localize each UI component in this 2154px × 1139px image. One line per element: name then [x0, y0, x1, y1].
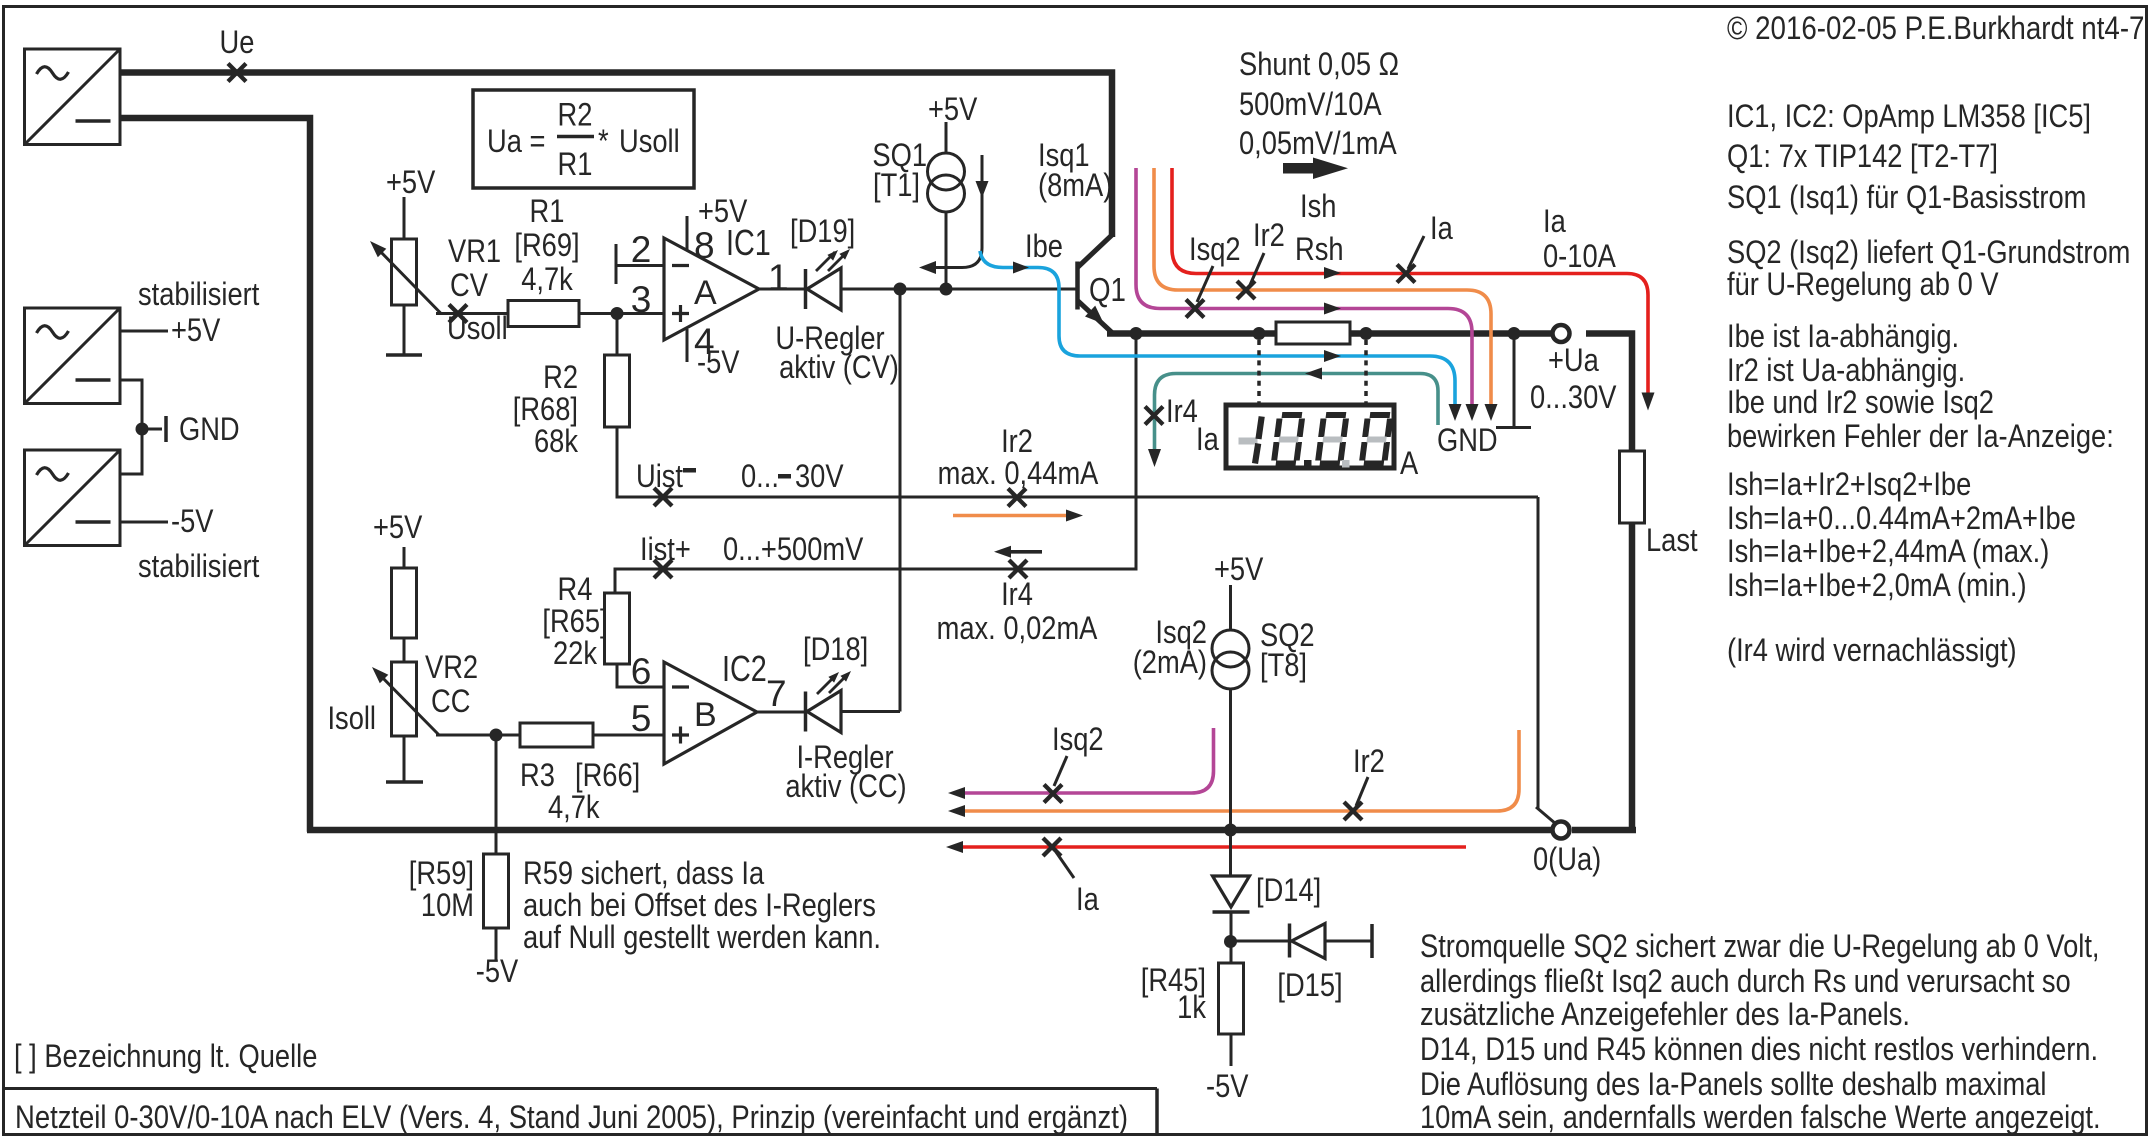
svg-text:0...: 0...	[741, 459, 779, 495]
svg-text:[D14]: [D14]	[1256, 873, 1321, 909]
svg-text:+5V: +5V	[1214, 552, 1263, 588]
svg-text:5: 5	[631, 698, 652, 739]
svg-text:+5V: +5V	[373, 510, 422, 546]
svg-text:Rsh: Rsh	[1295, 232, 1344, 268]
svg-text:SQ1 (Isq1) für Q1-Basisstrom: SQ1 (Isq1) für Q1-Basisstrom	[1727, 180, 2086, 216]
svg-text:IC2: IC2	[722, 648, 767, 689]
svg-text:Ibe ist Ia-abhängig.: Ibe ist Ia-abhängig.	[1727, 319, 1959, 355]
svg-text:*: *	[598, 124, 609, 160]
svg-text:[R69]: [R69]	[514, 228, 579, 264]
svg-text:Q1: Q1	[1089, 272, 1126, 309]
svg-text:3: 3	[631, 279, 652, 320]
svg-text:Netzteil 0-30V/0-10A nach ELV: Netzteil 0-30V/0-10A nach ELV (Vers. 4, …	[15, 1100, 1128, 1136]
svg-text:R4: R4	[558, 572, 593, 608]
svg-text:0,05mV/1mA: 0,05mV/1mA	[1239, 126, 1397, 162]
svg-text:A: A	[694, 274, 717, 312]
svg-text:Ibe: Ibe	[1025, 229, 1063, 265]
svg-text:© 2016-02-05 P.E.Burkhardt nt4: © 2016-02-05 P.E.Burkhardt nt4-7	[1727, 11, 2144, 47]
svg-text:GND: GND	[179, 412, 240, 448]
svg-text:R59 sichert, dass Ia: R59 sichert, dass Ia	[523, 856, 764, 892]
svg-text:zusätzliche Anzeigefehler des: zusätzliche Anzeigefehler des Ia-Panels.	[1420, 997, 1910, 1033]
svg-text:0...30V: 0...30V	[1530, 380, 1616, 416]
svg-text:[R66]: [R66]	[575, 758, 640, 794]
svg-text:Ish=Ia+Ibe+2,44mA (max.): Ish=Ia+Ibe+2,44mA (max.)	[1727, 534, 2049, 570]
svg-text:Shunt 0,05 Ω: Shunt 0,05 Ω	[1239, 47, 1399, 83]
svg-text:Ue: Ue	[220, 25, 255, 61]
svg-text:6: 6	[631, 651, 652, 692]
svg-text:4,7k: 4,7k	[521, 262, 573, 298]
svg-text:Isq2: Isq2	[1189, 232, 1241, 268]
svg-text:VR2: VR2	[425, 650, 478, 686]
svg-text:Ir2: Ir2	[1253, 218, 1285, 254]
svg-text:Ish=Ia+Ibe+2,0mA (min.): Ish=Ia+Ibe+2,0mA (min.)	[1727, 568, 2027, 604]
svg-text:(8mA): (8mA)	[1038, 168, 1112, 204]
svg-text:R3: R3	[520, 758, 555, 794]
svg-text:[D18]: [D18]	[803, 632, 868, 668]
svg-text:Iist+: Iist+	[640, 532, 691, 568]
svg-text:+5V: +5V	[386, 165, 435, 201]
svg-text:+5V: +5V	[928, 92, 977, 128]
svg-text:auch bei Offset des I-Reglers: auch bei Offset des I-Reglers	[523, 888, 876, 924]
svg-text:0-10A: 0-10A	[1543, 239, 1616, 275]
svg-text:aktiv (CC): aktiv (CC)	[785, 769, 906, 805]
svg-text:A: A	[1400, 446, 1418, 482]
svg-text:Isq2: Isq2	[1052, 722, 1104, 758]
svg-text:Ia: Ia	[1196, 422, 1219, 458]
svg-text:IC1: IC1	[726, 222, 771, 263]
svg-text:(Ir4 wird vernachlässigt): (Ir4 wird vernachlässigt)	[1727, 633, 2017, 669]
svg-text:[D19]: [D19]	[790, 214, 855, 250]
svg-text:+Ua: +Ua	[1548, 343, 1599, 379]
svg-text:max. 0,02mA: max. 0,02mA	[937, 611, 1098, 647]
svg-text:Ibe und Ir2 sowie Isq2: Ibe und Ir2 sowie Isq2	[1727, 385, 1994, 421]
svg-text:CV: CV	[450, 268, 488, 304]
svg-text:Uist: Uist	[636, 459, 684, 495]
svg-text:[R68]: [R68]	[513, 392, 578, 428]
svg-text:Ia: Ia	[1076, 882, 1099, 918]
svg-text:CC: CC	[431, 684, 470, 720]
svg-text:Q1: 7x TIP142 [T2-T7]: Q1: 7x TIP142 [T2-T7]	[1727, 139, 1998, 175]
svg-text:1k: 1k	[1177, 990, 1207, 1026]
svg-text:(2mA): (2mA)	[1133, 645, 1207, 681]
svg-text:D14, D15 und R45 können dies n: D14, D15 und R45 können dies nicht restl…	[1420, 1032, 2098, 1068]
svg-text:bewirken Fehler der Ia-Anzeige: bewirken Fehler der Ia-Anzeige:	[1727, 419, 2114, 455]
svg-text:-5V: -5V	[1206, 1069, 1248, 1105]
svg-text:stabilisiert: stabilisiert	[138, 277, 260, 313]
svg-text:8: 8	[694, 225, 715, 266]
svg-text:für U-Regelung ab 0 V: für U-Regelung ab 0 V	[1727, 267, 1999, 303]
svg-text:Ish=Ia+0...0.44mA+2mA+Ibe: Ish=Ia+0...0.44mA+2mA+Ibe	[1727, 501, 2076, 537]
svg-text:0...+500mV: 0...+500mV	[723, 532, 863, 568]
svg-text:R2: R2	[558, 97, 593, 133]
svg-text:7: 7	[766, 673, 787, 714]
svg-text:Stromquelle SQ2 sichert zwar d: Stromquelle SQ2 sichert zwar die U-Regel…	[1420, 929, 2100, 965]
svg-text:4,7k: 4,7k	[548, 790, 600, 826]
svg-text:Ish=Ia+Ir2+Isq2+Ibe: Ish=Ia+Ir2+Isq2+Ibe	[1727, 467, 1971, 503]
svg-text:Ia: Ia	[1543, 204, 1566, 240]
svg-text:68k: 68k	[534, 424, 579, 460]
svg-text:stabilisiert: stabilisiert	[138, 549, 260, 585]
svg-text:[T1]: [T1]	[873, 168, 920, 204]
svg-text:30V: 30V	[795, 459, 844, 495]
svg-text:VR1: VR1	[448, 234, 501, 270]
svg-text:allerdings fließt Isq2 auch du: allerdings fließt Isq2 auch durch Rs und…	[1420, 964, 2071, 1000]
svg-text:IC1, IC2: OpAmp LM358 [IC5]: IC1, IC2: OpAmp LM358 [IC5]	[1727, 99, 2091, 135]
svg-text:SQ2 (Isq2) liefert Q1-Grundstr: SQ2 (Isq2) liefert Q1-Grundstrom	[1727, 235, 2130, 271]
svg-text:-5V: -5V	[697, 345, 739, 381]
svg-text:[R59]: [R59]	[409, 856, 474, 892]
svg-text:Ir2: Ir2	[1001, 424, 1033, 460]
svg-text:Usoll: Usoll	[619, 124, 680, 160]
svg-text:R1: R1	[530, 194, 565, 230]
svg-text:+5V: +5V	[171, 313, 220, 349]
svg-text:Die Auflösung des Ia-Panels so: Die Auflösung des Ia-Panels sollte desha…	[1420, 1067, 2046, 1103]
svg-text:10M: 10M	[421, 888, 474, 924]
svg-text:-5V: -5V	[476, 954, 518, 990]
svg-text:-5V: -5V	[171, 504, 213, 540]
svg-text:Ir4: Ir4	[1001, 577, 1033, 613]
svg-text:aktiv (CV): aktiv (CV)	[779, 350, 899, 386]
svg-text:R1: R1	[558, 147, 593, 183]
svg-text:0(Ua): 0(Ua)	[1533, 842, 1601, 878]
svg-text:Ir4: Ir4	[1166, 394, 1198, 430]
svg-text:Ir2: Ir2	[1353, 744, 1385, 780]
svg-text:Usoll: Usoll	[447, 311, 508, 347]
svg-text:22k: 22k	[553, 636, 598, 672]
svg-text:R2: R2	[543, 360, 578, 396]
svg-text:[R65]: [R65]	[542, 604, 607, 640]
svg-text:Last: Last	[1646, 523, 1698, 559]
svg-text:[T8]: [T8]	[1260, 648, 1307, 684]
svg-text:Ir2 ist Ua-abhängig.: Ir2 ist Ua-abhängig.	[1727, 353, 1965, 389]
svg-text:Ia: Ia	[1430, 211, 1453, 247]
svg-text:Isoll: Isoll	[327, 701, 376, 737]
svg-text:2: 2	[631, 229, 652, 270]
svg-text:Ua =: Ua =	[487, 124, 545, 160]
svg-text:B: B	[694, 696, 717, 734]
svg-text:[D15]: [D15]	[1277, 968, 1342, 1004]
svg-text:Ish: Ish	[1300, 189, 1336, 225]
svg-text:10mA sein, andernfalls werden: 10mA sein, andernfalls werden falsche We…	[1420, 1100, 2101, 1136]
svg-text:auf Null gestellt werden kann.: auf Null gestellt werden kann.	[523, 920, 881, 956]
svg-text:[ ] Bezeichnung lt. Quelle: [ ] Bezeichnung lt. Quelle	[14, 1039, 317, 1075]
svg-text:1: 1	[768, 257, 789, 298]
svg-text:max. 0,44mA: max. 0,44mA	[938, 456, 1099, 492]
svg-text:500mV/10A: 500mV/10A	[1239, 87, 1382, 123]
svg-text:GND: GND	[1437, 423, 1498, 459]
